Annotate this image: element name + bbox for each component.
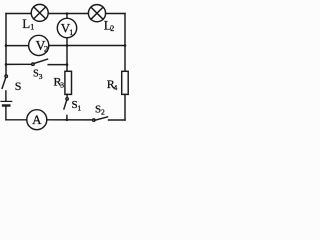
wire bottom-left (6, 119, 27, 121)
wire top-middle segment (48, 13, 88, 15)
node top junction (66, 12, 69, 15)
svg-text:4: 4 (114, 83, 118, 92)
switch S (5, 75, 7, 77)
label V2 (36, 38, 49, 54)
wire S to battery (5, 91, 7, 101)
wire battery to corner (5, 106, 7, 120)
svg-text:2: 2 (44, 44, 48, 54)
wire right frame upper (124, 14, 126, 72)
wire S3-row left (6, 63, 32, 65)
wire left frame upper (5, 14, 7, 76)
node left V-row junction (5, 44, 8, 47)
switch S3 (32, 63, 34, 65)
wire top-right segment (106, 13, 125, 15)
label R3 (54, 74, 65, 89)
ammeter A (27, 110, 47, 130)
wire S2 to corner (109, 119, 126, 121)
resistor R3 (65, 71, 72, 94)
resistor R4 (122, 71, 129, 94)
node S3-middle junction (66, 63, 69, 66)
svg-text:1: 1 (69, 28, 73, 37)
node middle V-row junction (66, 44, 69, 47)
label S1 (72, 99, 82, 112)
svg-text:3: 3 (60, 81, 64, 90)
svg-text:1: 1 (30, 23, 34, 32)
wire S3-row right (48, 64, 67, 66)
label S3 (33, 69, 43, 81)
lamp L2 (88, 5, 105, 22)
label L2 (104, 18, 115, 34)
wire R3 to S1 (66, 94, 68, 97)
node right V-row junction (124, 44, 127, 47)
wire V-row right (49, 45, 125, 47)
svg-text:S: S (15, 79, 22, 93)
label R4 (107, 77, 118, 92)
label L1 (22, 16, 34, 32)
label V1 (61, 21, 74, 37)
battery S plates (1, 100, 12, 102)
svg-text:A: A (32, 112, 42, 127)
lamp L1 (31, 4, 48, 21)
node bottom middle junction (66, 119, 69, 122)
wire right frame lower (124, 94, 126, 120)
wire middle branch (66, 46, 68, 72)
voltmeter V2 (29, 35, 49, 55)
svg-text:L: L (22, 16, 30, 31)
svg-text:1: 1 (77, 103, 81, 112)
switch S2 (93, 119, 95, 121)
voltmeter V1 (66, 14, 68, 19)
wire top-left segment (6, 13, 31, 15)
svg-text:3: 3 (39, 72, 43, 81)
svg-text:2: 2 (110, 24, 114, 33)
node left S3-row junction (5, 63, 8, 66)
wire A to S2 (47, 119, 93, 121)
label S2 (95, 103, 105, 116)
switch S1 (66, 98, 68, 100)
svg-text:2: 2 (101, 107, 105, 116)
wire V-row left (6, 45, 29, 47)
